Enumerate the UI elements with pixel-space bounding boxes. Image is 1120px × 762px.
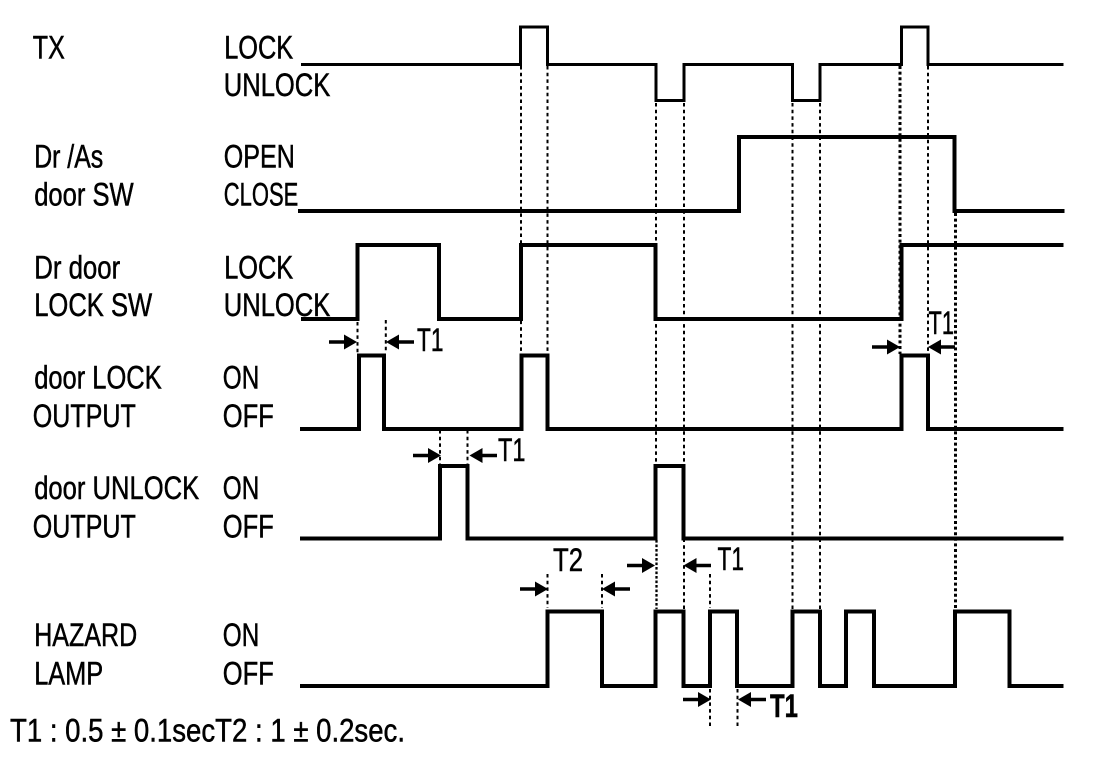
T1 arrow right (door UNLOCK out p1)	[413, 448, 441, 463]
dashed guide x=467	[467, 430, 469, 464]
dense dashed guide x=900	[899, 66, 902, 354]
svg-text:T1: T1	[718, 541, 745, 577]
svg-text:ON: ON	[223, 470, 259, 506]
svg-text:door UNLOCK: door UNLOCK	[34, 470, 199, 506]
svg-text:LOCK: LOCK	[224, 30, 293, 66]
dashed guide x=547 upper	[547, 66, 549, 353]
T1 arrow left (door UNLOCK out p2)	[684, 558, 712, 573]
door UNLOCK OUTPUT waveform	[300, 466, 1064, 539]
svg-text:OFF: OFF	[223, 656, 274, 692]
TX waveform	[301, 27, 1064, 101]
dashed guide x=547 lower	[547, 574, 549, 608]
svg-text:LOCK: LOCK	[224, 250, 293, 286]
svg-text:LAMP: LAMP	[34, 656, 103, 692]
T1 arrow right (Dr door pulse)	[329, 335, 357, 350]
dashed guide x=656 upper	[655, 103, 657, 537]
Dr door LOCK SW waveform	[301, 245, 1064, 319]
svg-text:T1: T1	[770, 688, 798, 724]
svg-text:door LOCK: door LOCK	[34, 360, 162, 396]
dashed guide x=440	[439, 430, 441, 464]
svg-text:T1 : 0.5 ± 0.1secT2 : 1 ± 0.2s: T1 : 0.5 ± 0.1secT2 : 1 ± 0.2sec.	[10, 713, 405, 749]
svg-text:CLOSE: CLOSE	[224, 177, 298, 213]
T1 arrow left (door LOCK out p3)	[928, 340, 955, 355]
svg-text:OFF: OFF	[223, 398, 274, 434]
svg-text:Dr door: Dr door	[34, 250, 120, 286]
T1 arrow left (door UNLOCK out p1)	[470, 448, 498, 463]
svg-text:TX: TX	[33, 30, 65, 66]
svg-text:T1: T1	[498, 432, 526, 468]
T2 arrow right (hazard p1)	[520, 582, 548, 597]
dashed guide x=792	[792, 103, 794, 609]
T1 arrow right (hazard p3)	[683, 692, 711, 707]
door LOCK OUTPUT waveform	[300, 356, 1064, 430]
svg-text:OFF: OFF	[223, 509, 274, 545]
dashed guide x=357	[357, 322, 359, 353]
dashed guide x=710 upper	[709, 574, 711, 608]
svg-text:ON: ON	[223, 617, 259, 653]
svg-text:ON: ON	[223, 360, 259, 396]
svg-text:HAZARD: HAZARD	[34, 617, 137, 653]
HAZARD LAMP waveform	[300, 612, 1064, 687]
dashed guide x=737 lower	[737, 689, 739, 726]
svg-text:T1: T1	[417, 322, 444, 358]
dashed guide x=656 lower dense	[655, 540, 657, 609]
dashed guide x=602	[601, 574, 603, 608]
T2 arrow left (hazard p1)	[602, 582, 630, 597]
svg-text:OUTPUT: OUTPUT	[33, 509, 136, 545]
svg-text:T1: T1	[929, 305, 955, 341]
dashed guide x=386	[385, 320, 387, 353]
dashed guide x=710 lower	[709, 689, 711, 726]
svg-text:LOCK SW: LOCK SW	[34, 287, 153, 323]
T1 arrow right (door LOCK out p3)	[872, 340, 900, 355]
svg-text:OPEN: OPEN	[224, 139, 295, 175]
Dr/As door SW waveform	[298, 137, 1065, 211]
T1 arrow left (hazard p3)	[738, 692, 766, 707]
svg-text:door SW: door SW	[34, 177, 134, 213]
T1 arrow right (door UNLOCK out p2)	[627, 558, 655, 573]
dashed guide x=521	[520, 66, 522, 353]
svg-text:Dr /As: Dr /As	[34, 139, 103, 175]
dashed guide x=820	[819, 103, 821, 609]
dashed guide x=684	[683, 103, 685, 609]
svg-text:UNLOCK: UNLOCK	[224, 67, 330, 103]
dashed guide x=928	[927, 66, 929, 353]
T1 arrow left (Dr door pulse)	[386, 335, 414, 350]
dense dashed guide x=955	[954, 213, 957, 610]
svg-text:OUTPUT: OUTPUT	[33, 398, 136, 434]
svg-text:T2: T2	[553, 542, 583, 578]
